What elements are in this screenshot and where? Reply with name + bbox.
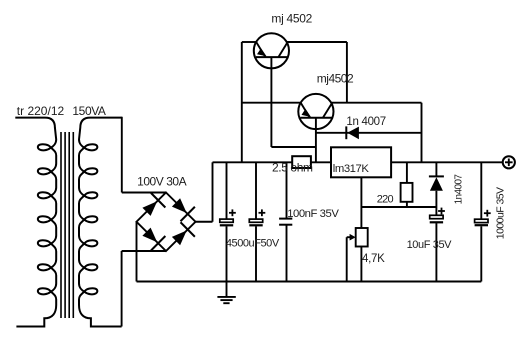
capacitor C4 bottom lead bbox=[435, 223, 437, 281]
transformer core line 3 bbox=[68, 132, 70, 318]
capacitor C2 4500uF plus sign bbox=[259, 212, 266, 214]
wire to bridge AC top bbox=[122, 192, 166, 194]
capacitor C1 4500uF plus sign bbox=[229, 212, 236, 214]
transformer core line 1 bbox=[60, 132, 62, 318]
capacitor C5 plus sign bbox=[484, 212, 491, 214]
capacitor C1 4500uF bottom plate bbox=[220, 224, 233, 226]
positive top rail bbox=[213, 161, 504, 163]
capacitor C4 bottom plate bbox=[430, 221, 443, 223]
Q1 mj4502 base bar bbox=[256, 56, 288, 58]
ground bar 3 bbox=[223, 302, 229, 304]
wire up to positive rail bbox=[212, 162, 214, 221]
transformer T1 secondary winding bbox=[79, 118, 122, 327]
wire Q1 base to Q2 base node bbox=[271, 146, 316, 148]
capacitor C1 4500uF top lead bbox=[226, 162, 228, 219]
resistor 2.5 ohm body bbox=[292, 156, 311, 168]
svg-text:100V 30A: 100V 30A bbox=[137, 175, 187, 189]
capacitor C5 bottom plate bbox=[475, 224, 488, 226]
resistor R1 220 top lead bbox=[406, 162, 408, 183]
capacitor C2 4500uF bottom lead bbox=[255, 226, 257, 281]
wire secondary bottom up bbox=[121, 251, 123, 327]
Q1 collector wire down bbox=[346, 42, 348, 103]
svg-text:150VA: 150VA bbox=[72, 104, 106, 118]
svg-text:10uF 35V: 10uF 35V bbox=[407, 239, 453, 251]
pot wiper line bbox=[347, 236, 351, 238]
capacitor C1 4500uF top plate bbox=[220, 219, 233, 222]
Q1 base lead down bbox=[270, 57, 272, 147]
Q2 mj4502 emitter line bbox=[301, 103, 310, 118]
transformer core line 2 bbox=[64, 132, 66, 318]
bridge diode D-BR arrow bbox=[172, 231, 187, 246]
capacitor C5 top plate bbox=[475, 219, 488, 222]
capacitor C5 1000uF top lead bbox=[480, 162, 482, 219]
diode D2 cathode bar bbox=[429, 175, 444, 177]
pot wiper arrow bbox=[350, 234, 356, 241]
pot wiper wire down bbox=[346, 237, 348, 281]
capacitor C3 100nF top lead bbox=[286, 162, 288, 218]
Q1 collector wire right bbox=[287, 41, 347, 43]
ground bar 1 bbox=[217, 296, 235, 298]
svg-text:220: 220 bbox=[377, 193, 394, 205]
Q1 emitter wire bbox=[242, 41, 256, 43]
Q2 mj4502 emitter arrow bbox=[302, 109, 312, 117]
regulator U1 lm317K body bbox=[331, 147, 391, 177]
capacitor C2 4500uF bottom plate bbox=[249, 224, 262, 226]
lm317 ADJ lead down to pot bbox=[360, 177, 362, 228]
Q2 emitter wire to left vertical bbox=[242, 102, 301, 104]
wire bridge + to corner bbox=[196, 221, 213, 223]
bridge rectifier diamond 100V 30A bbox=[137, 193, 196, 252]
bridge diode D-BL cathode bar bbox=[151, 236, 165, 250]
ground bar 2 bbox=[220, 299, 232, 301]
diode D1 arrow (points left) bbox=[347, 127, 359, 140]
wire bridge - down bbox=[136, 222, 138, 282]
resistor R1 220 bottom lead bbox=[406, 202, 408, 207]
negative bottom rail bbox=[137, 281, 482, 283]
Q2 mj4502 collector line bbox=[323, 103, 332, 118]
svg-text:1000uF 35V: 1000uF 35V bbox=[495, 187, 507, 239]
ground stem bbox=[226, 282, 228, 297]
capacitor C2 4500uF top plate bbox=[249, 219, 262, 222]
Q2 collector wire right bbox=[331, 102, 421, 104]
svg-text:lm317K: lm317K bbox=[333, 163, 370, 175]
Q1 mj4502 collector line bbox=[278, 42, 287, 57]
svg-text:2.5 ohm: 2.5 ohm bbox=[272, 160, 313, 174]
diode D1 cathode bar bbox=[345, 126, 347, 139]
svg-text:4,7K: 4,7K bbox=[362, 253, 385, 265]
bridge diode D-TR cathode bar bbox=[181, 207, 195, 221]
transistor Q1 mj4502 PNP bbox=[254, 33, 289, 68]
wire ADJ node horizontal bbox=[361, 206, 436, 208]
capacitor C4 plus sign bbox=[438, 210, 445, 212]
wire to bridge AC bottom bbox=[122, 250, 166, 252]
capacitor C3 top plate bbox=[279, 218, 292, 220]
output terminal + bbox=[503, 156, 515, 168]
svg-text:mj 4502: mj 4502 bbox=[271, 12, 312, 26]
svg-text:1n4007: 1n4007 bbox=[454, 174, 465, 205]
transformer T1 primary winding bbox=[15, 118, 56, 327]
transformer core line 4 bbox=[72, 132, 74, 318]
svg-text:1n 4007: 1n 4007 bbox=[346, 116, 385, 128]
bridge diode D-TL cathode bar bbox=[151, 193, 165, 207]
transistor Q2 mj4502 PNP bbox=[298, 94, 333, 129]
svg-text:tr 220/12: tr 220/12 bbox=[17, 104, 65, 118]
bridge diode D-TL arrow bbox=[142, 201, 157, 216]
svg-text:mj4502: mj4502 bbox=[317, 71, 354, 85]
capacitor C3 bottom lead bbox=[286, 225, 288, 282]
svg-text:4500uF50V: 4500uF50V bbox=[226, 237, 280, 249]
capacitor C5 bottom lead bbox=[480, 226, 482, 281]
bridge diode D-BR cathode bar bbox=[181, 222, 195, 236]
pot bottom lead bbox=[360, 247, 362, 282]
collector node down to output rail bbox=[421, 103, 423, 163]
Q1 mj4502 emitter arrow bbox=[257, 48, 267, 56]
wire secondary top down bbox=[121, 117, 123, 193]
wire Q1 emitter down to rail bbox=[241, 42, 243, 162]
potentiometer P1 4.7K body bbox=[356, 228, 368, 247]
resistor R1 220 body bbox=[401, 183, 413, 202]
capacitor C3 bottom plate bbox=[279, 224, 292, 226]
Q1 mj4502 emitter line bbox=[256, 42, 265, 57]
diode D2 top lead bbox=[435, 162, 437, 176]
capacitor C4 10uF top plate bbox=[430, 215, 443, 218]
svg-text:100nF 35V: 100nF 35V bbox=[287, 208, 339, 220]
bridge diode D-TR arrow bbox=[172, 198, 187, 213]
capacitor C1 4500uF bottom lead bbox=[226, 226, 228, 281]
Q2 base lead down to rail bbox=[315, 118, 317, 163]
capacitor C2 4500uF top lead bbox=[255, 162, 257, 219]
diode D2 bottom lead / C4 top lead bbox=[435, 191, 437, 216]
bridge diode D-BL arrow bbox=[142, 228, 157, 243]
diode D2 arrow (points up) bbox=[430, 177, 443, 191]
Q2 mj4502 base bar bbox=[300, 117, 332, 119]
diode D1 wire bbox=[316, 132, 422, 134]
